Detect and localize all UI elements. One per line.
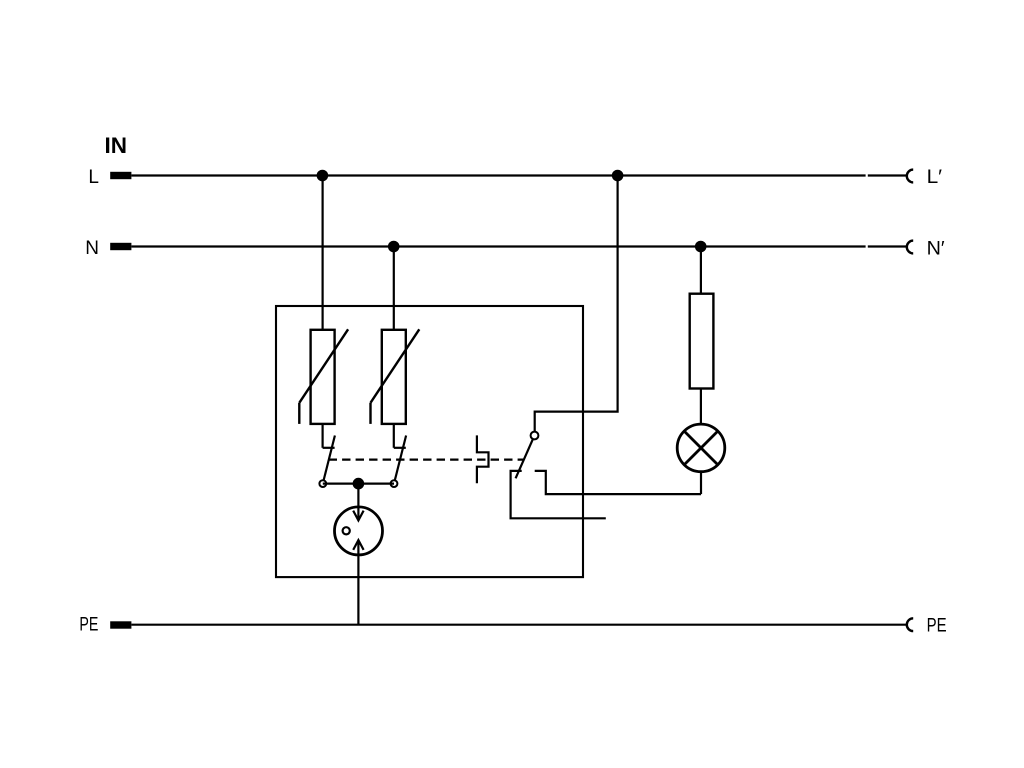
spark gap GDT body <box>335 507 383 555</box>
resistor R1 body <box>690 294 714 389</box>
thermal disconnect F2 fixed contact stub <box>394 447 406 449</box>
mechanical linkage dashed <box>329 459 524 461</box>
wire RV1 top lead <box>322 176 324 330</box>
thermal disconnect F1 blade <box>324 436 335 481</box>
node L-RV1 junction <box>317 170 329 182</box>
wire disconnect common <box>323 483 394 485</box>
wire lamp bottom lead <box>700 472 702 494</box>
indicator lamp H1 cross stroke 2 <box>684 431 718 465</box>
wire N <box>132 245 866 247</box>
SPD enclosure box <box>276 306 583 577</box>
wire L <box>132 174 866 176</box>
varistor RV1 diagonal tail <box>298 403 300 424</box>
node N-RV2 junction <box>388 241 400 253</box>
svg-text:N′: N′ <box>927 238 945 259</box>
switch S1 pivot <box>531 432 539 440</box>
wire L drop to switch <box>535 176 618 432</box>
spark gap gas indicator circle <box>343 527 350 534</box>
svg-text:IN: IN <box>105 133 128 158</box>
wire spark gap to PE <box>357 541 359 625</box>
wire common to spark gap <box>357 484 359 520</box>
terminal L' connector arc <box>907 170 913 183</box>
svg-text:L: L <box>88 167 99 188</box>
svg-text:PE: PE <box>927 616 947 637</box>
terminal L input bar <box>110 172 131 179</box>
node N-resistor junction <box>695 241 707 253</box>
thermal disconnect F1 pivot <box>319 480 326 487</box>
wire RV2 top lead <box>393 247 395 330</box>
terminal N' connector arc <box>907 241 913 254</box>
node L-switch junction <box>612 170 624 182</box>
svg-text:PE: PE <box>79 615 98 636</box>
switch S1 blade <box>516 439 533 478</box>
terminal N input bar <box>110 243 131 250</box>
varistor RV1 diagonal <box>299 329 348 403</box>
terminal PE input bar <box>110 621 131 628</box>
wire RV2 bottom lead <box>393 424 395 448</box>
wire resistor to lamp <box>700 389 702 425</box>
wire L right segment <box>868 174 908 176</box>
varistor RV2 body <box>382 330 406 424</box>
wire PE <box>132 624 908 626</box>
svg-text:L′: L′ <box>927 167 943 188</box>
indicator lamp H1 body <box>677 424 725 472</box>
varistor RV1 body <box>311 330 335 424</box>
wire N right segment <box>868 245 908 247</box>
svg-text:N: N <box>85 238 99 259</box>
switch S1 right contact <box>535 471 701 494</box>
spark gap top arrowhead <box>353 511 363 521</box>
wire RV1 bottom lead <box>322 424 324 448</box>
terminal PE' connector arc <box>907 618 913 631</box>
thermal disconnect F2 blade <box>395 436 406 481</box>
wire resistor top lead <box>700 247 702 294</box>
node common junction <box>353 478 365 490</box>
varistor RV2 diagonal tail <box>369 403 371 424</box>
switch S1 left contact <box>511 471 606 518</box>
spark gap bottom arrowhead <box>353 540 363 550</box>
thermal disconnect F1 fixed contact stub <box>323 447 335 449</box>
indicator lamp H1 cross stroke 1 <box>684 431 718 465</box>
actuator crank <box>477 435 489 483</box>
thermal disconnect F2 pivot <box>391 480 398 487</box>
varistor RV2 diagonal <box>371 329 420 403</box>
